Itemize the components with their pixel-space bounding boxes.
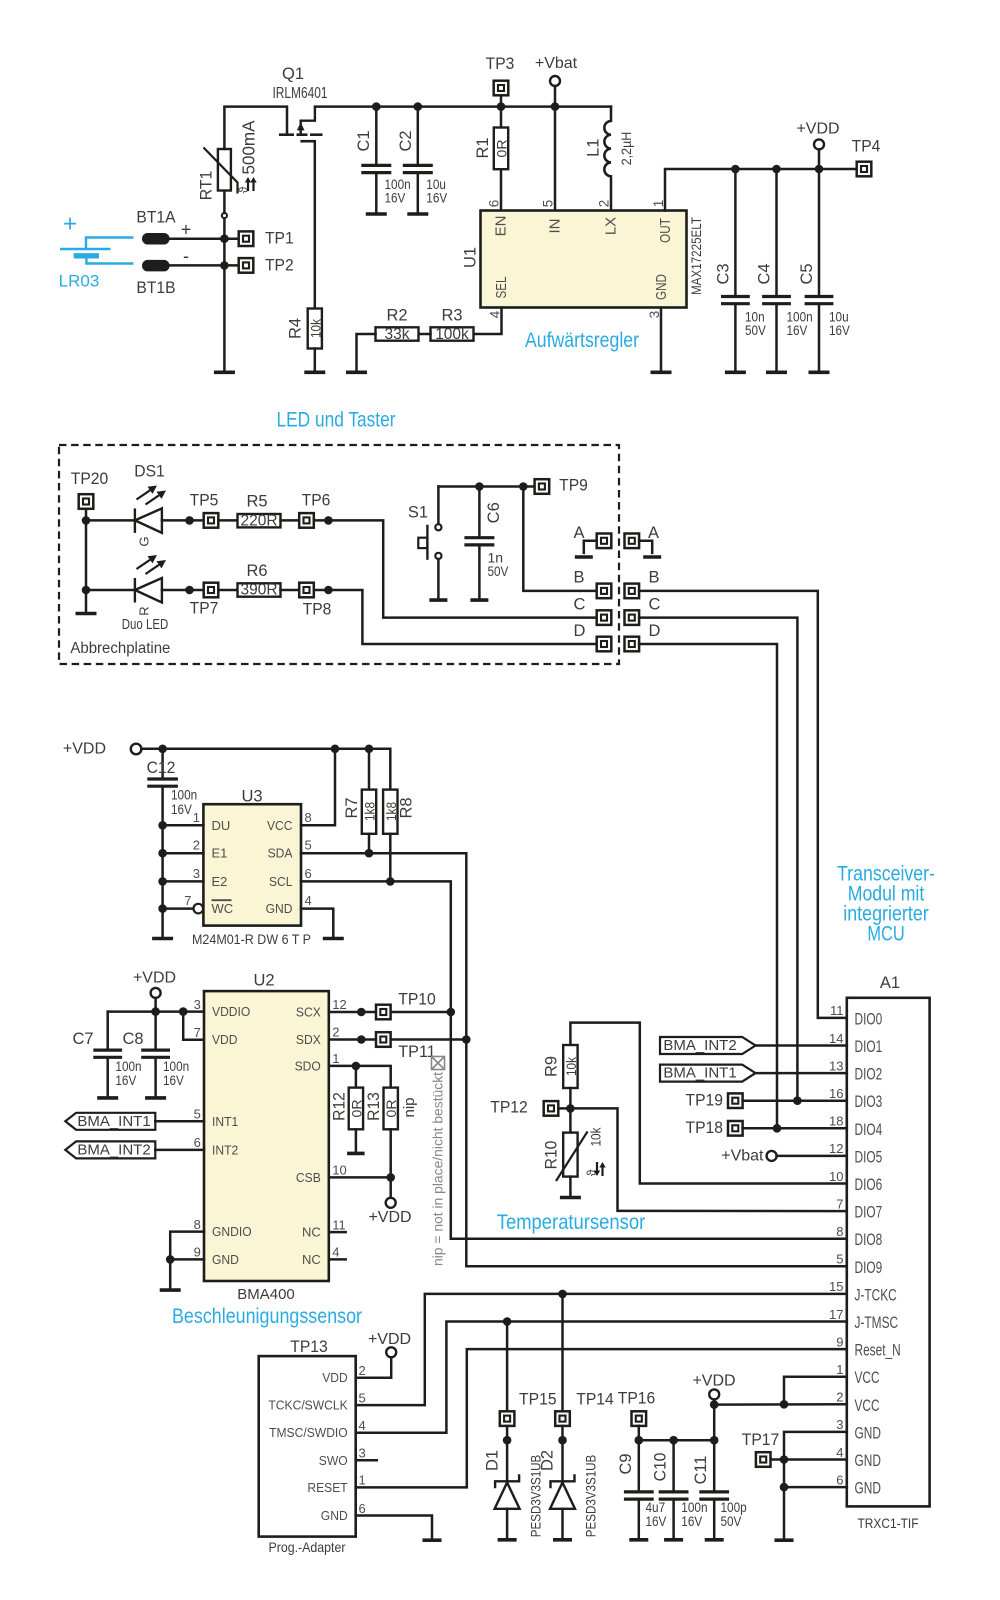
resistor R13 nip bbox=[384, 1088, 398, 1130]
junction dot TP17 row bbox=[780, 1455, 789, 1464]
wire U1 OUT pin 1 to +VDD rail and TP4 bbox=[665, 169, 857, 211]
op-amp U3 M24M01 EEPROM box bbox=[203, 804, 301, 925]
junction dot C5/+VDD bbox=[815, 165, 824, 174]
testpoint TP11 bbox=[376, 1032, 391, 1047]
svg-text:2: 2 bbox=[359, 1363, 366, 1378]
wire TP13 GND pin 6 to ground bbox=[356, 1516, 432, 1539]
svg-text:2: 2 bbox=[332, 1025, 339, 1040]
svg-text:U2: U2 bbox=[253, 972, 274, 990]
svg-text:RT1: RT1 bbox=[198, 171, 216, 201]
svg-text:E2: E2 bbox=[212, 874, 228, 889]
testpoint TP9 bbox=[535, 479, 550, 494]
wire GND pin 9 bbox=[170, 1258, 204, 1261]
junction dot C2 bbox=[414, 102, 423, 111]
svg-text:C8: C8 bbox=[122, 1030, 143, 1048]
svg-text:D2: D2 bbox=[539, 1450, 557, 1471]
resistor R8 pullup bbox=[383, 790, 397, 834]
svg-text:J-TMSC: J-TMSC bbox=[855, 1314, 899, 1332]
wire green LED to TP5 bbox=[162, 519, 204, 522]
junction dot R8 SCL bbox=[386, 877, 395, 886]
svg-text:50V: 50V bbox=[721, 1513, 742, 1529]
diode D2 PESD3V3S1UB bbox=[550, 1474, 575, 1509]
svg-text:SCX: SCX bbox=[296, 1005, 321, 1020]
svg-text:C: C bbox=[649, 596, 661, 614]
thermistor R10 NTC bbox=[563, 1133, 577, 1177]
junction dot D2 bbox=[558, 1436, 567, 1445]
wire BMA_INT2 to DIO1 bbox=[756, 1044, 847, 1047]
svg-text:33k: 33k bbox=[385, 326, 410, 343]
svg-text:D1: D1 bbox=[484, 1450, 502, 1471]
svg-text:16V: 16V bbox=[163, 1072, 184, 1088]
svg-text:+VDD: +VDD bbox=[133, 970, 176, 987]
junction dot R7 SDA bbox=[365, 849, 374, 858]
svg-text:18: 18 bbox=[829, 1114, 843, 1129]
junction dot C1 bbox=[372, 102, 381, 111]
dashed box Abbrechplatine bbox=[59, 445, 619, 664]
ground C1 bbox=[366, 212, 387, 216]
ground S1 bbox=[429, 598, 447, 602]
junction dot DU row bbox=[158, 821, 167, 830]
wire VCC rail to pin 2 bbox=[714, 1403, 847, 1406]
transistor Q1 IRLM6401 bbox=[279, 107, 323, 142]
svg-text:3: 3 bbox=[194, 997, 201, 1012]
svg-text:A: A bbox=[573, 524, 584, 542]
svg-text:50V: 50V bbox=[745, 322, 766, 338]
svg-text:DIO2: DIO2 bbox=[855, 1066, 883, 1084]
junction dot WC row bbox=[158, 904, 167, 913]
svg-text:SWO: SWO bbox=[319, 1453, 348, 1468]
wire +Vbat to DIO5 bbox=[777, 1155, 847, 1158]
node flag BMA_INT2 left bbox=[65, 1141, 155, 1158]
svg-text:11: 11 bbox=[332, 1217, 346, 1232]
testpoint TP15 bbox=[500, 1411, 515, 1426]
junction dot D2 on J-TCKC bbox=[558, 1290, 567, 1299]
testpoint TP10 bbox=[376, 1005, 391, 1020]
svg-text:LX: LX bbox=[603, 217, 620, 235]
wire RESET to Reset_N row bbox=[356, 1349, 847, 1487]
connector C right bbox=[625, 610, 640, 625]
svg-text:17: 17 bbox=[829, 1307, 843, 1322]
wire +VDD rail over U3 bbox=[141, 749, 390, 790]
testpoint TP20 bbox=[79, 494, 94, 509]
wire TP17 to GND pin 4 bbox=[771, 1458, 847, 1461]
testpoint TP14 bbox=[555, 1411, 570, 1426]
junction dot D net DIO4 bbox=[773, 1124, 782, 1133]
svg-text:100k: 100k bbox=[435, 326, 469, 343]
wire S1 to ground bbox=[437, 559, 440, 598]
testpoint TP4 bbox=[857, 162, 872, 177]
junction dot SCX bbox=[357, 1008, 366, 1017]
svg-text:WC: WC bbox=[212, 901, 234, 916]
svg-text:16V: 16V bbox=[385, 190, 406, 206]
svg-text:VDD: VDD bbox=[212, 1032, 238, 1047]
wire TP12 stub bbox=[558, 1107, 570, 1110]
junction dot VCC branch bbox=[780, 1400, 789, 1409]
capacitor C9 bbox=[624, 1492, 654, 1499]
svg-text:16V: 16V bbox=[681, 1513, 702, 1529]
wire BMA_INT1 to INT1 pin 5 bbox=[155, 1120, 204, 1123]
svg-text:J-TCKC: J-TCKC bbox=[855, 1286, 897, 1304]
junction dot +Vbat/IN bbox=[551, 102, 560, 111]
svg-text:5: 5 bbox=[359, 1390, 366, 1405]
svg-text:DU: DU bbox=[212, 818, 231, 833]
svg-text:13: 13 bbox=[829, 1058, 843, 1073]
svg-text:LED und Taster: LED und Taster bbox=[277, 409, 396, 432]
testpoint TP17 bbox=[756, 1452, 771, 1467]
junction dot after TP6 bbox=[324, 516, 333, 525]
svg-text:2: 2 bbox=[193, 838, 200, 853]
ground R2 bbox=[346, 370, 367, 374]
svg-text:Reset_N: Reset_N bbox=[855, 1342, 901, 1360]
wire BMA_INT2 to INT2 pin 6 bbox=[155, 1149, 204, 1152]
svg-text:R8: R8 bbox=[398, 797, 416, 818]
svg-text:220R: 220R bbox=[240, 512, 277, 529]
svg-text:+VDD: +VDD bbox=[692, 1373, 735, 1390]
wire E1 pin 2 bbox=[163, 852, 204, 855]
testpoint TP3 bbox=[494, 81, 509, 96]
svg-text:3: 3 bbox=[836, 1417, 843, 1432]
svg-text:TP6: TP6 bbox=[302, 492, 331, 510]
wire U3 VCC pin 8 up to rail bbox=[301, 749, 335, 826]
wire U1 SEL pin 4 to R3 bbox=[474, 308, 502, 335]
ground TP20 column bbox=[76, 612, 97, 616]
junction dot VDD branch bbox=[179, 1007, 188, 1016]
svg-text:GND: GND bbox=[212, 1252, 239, 1267]
svg-text:+: + bbox=[181, 220, 192, 240]
junction dot GND pin 6 row bbox=[780, 1483, 789, 1492]
svg-text:DIO3: DIO3 bbox=[855, 1093, 883, 1111]
svg-text:R5: R5 bbox=[246, 493, 267, 511]
svg-text:3: 3 bbox=[359, 1446, 366, 1461]
svg-text:4: 4 bbox=[305, 893, 312, 908]
wire BT1B to TP2 bbox=[170, 264, 239, 267]
svg-text:SDA: SDA bbox=[268, 846, 293, 861]
svg-text:D: D bbox=[649, 622, 661, 640]
svg-text:6: 6 bbox=[359, 1501, 366, 1516]
node flag BMA_INT2 right bbox=[660, 1037, 756, 1054]
svg-text:Abbrechplatine: Abbrechplatine bbox=[70, 640, 170, 657]
ground A right bbox=[643, 555, 661, 559]
svg-text:14: 14 bbox=[829, 1031, 843, 1046]
svg-text:DIO7: DIO7 bbox=[855, 1204, 883, 1222]
inductor L1 2.2uH bbox=[610, 107, 613, 121]
LED DS1 red half bbox=[135, 578, 162, 603]
wire SCL net U3 to SCX/DIO8 bbox=[301, 881, 847, 1238]
junction dot SDA/SDX bbox=[462, 1035, 471, 1044]
capacitor C10 bbox=[672, 1440, 675, 1492]
wire R1 to U1 EN pin 6 bbox=[500, 169, 503, 210]
svg-text:4: 4 bbox=[836, 1445, 843, 1460]
svg-text:5: 5 bbox=[836, 1252, 843, 1267]
wire SDX row to TP11 bbox=[329, 1038, 467, 1041]
wire D2 net from J-TCKC bbox=[561, 1294, 564, 1411]
connector A left bbox=[597, 534, 612, 549]
svg-text:1: 1 bbox=[359, 1473, 366, 1488]
junction dot GND row bbox=[166, 1255, 175, 1264]
svg-text:nip = not in place/nicht bestü: nip = not in place/nicht bestückt bbox=[431, 1072, 446, 1266]
svg-text:U1: U1 bbox=[462, 247, 480, 268]
svg-text:10k: 10k bbox=[588, 1127, 604, 1147]
svg-text:C1: C1 bbox=[355, 130, 373, 151]
junction dot SCL/SCX bbox=[447, 1008, 456, 1017]
ground U1 bbox=[651, 370, 672, 374]
wire D right to A1 DIO4 net bbox=[639, 644, 777, 1128]
ground C7 bbox=[97, 1096, 118, 1100]
svg-text:L1: L1 bbox=[585, 139, 603, 157]
junction dot SDO/R12 bbox=[352, 1062, 361, 1071]
wire SWO stub bbox=[356, 1459, 377, 1462]
svg-text:8: 8 bbox=[836, 1224, 843, 1239]
connector D left bbox=[597, 637, 612, 652]
capacitor C11 bbox=[713, 1440, 716, 1492]
svg-text:TP12: TP12 bbox=[490, 1099, 528, 1117]
svg-text:-: - bbox=[183, 246, 189, 266]
svg-text:TP7: TP7 bbox=[190, 600, 219, 618]
ground C3 bbox=[725, 370, 746, 374]
wire battery minus to ground bbox=[223, 239, 226, 371]
op-amp A1 TRXC1-TIF module box bbox=[847, 998, 930, 1507]
connector C left bbox=[597, 610, 612, 625]
wire +VDD to VDDIO pin 3 bbox=[108, 1010, 204, 1013]
svg-text:SDX: SDX bbox=[296, 1032, 321, 1047]
junction dot +VDD U2 bbox=[151, 1007, 160, 1016]
junction dot green row bbox=[82, 516, 91, 525]
wire BMA_INT1 to DIO2 bbox=[756, 1072, 847, 1075]
svg-text:R2: R2 bbox=[386, 307, 407, 325]
wire C rail bbox=[639, 1439, 714, 1442]
junction dot CSB bbox=[386, 1173, 395, 1182]
ground C4 bbox=[766, 370, 787, 374]
svg-text:R12: R12 bbox=[331, 1092, 349, 1121]
svg-text:IRLM6401: IRLM6401 bbox=[273, 85, 328, 102]
svg-text:BMA400: BMA400 bbox=[237, 1286, 295, 1303]
ground C12 column bbox=[152, 937, 173, 941]
LED DS1 green half bbox=[135, 508, 162, 533]
svg-text:9: 9 bbox=[194, 1245, 201, 1260]
wire SDA net U3 to SDX/DIO9 bbox=[301, 853, 847, 1266]
testpoint TP18 bbox=[728, 1121, 743, 1136]
svg-text:3: 3 bbox=[193, 866, 200, 881]
connector D right bbox=[625, 637, 640, 652]
capacitor C3 bbox=[734, 169, 737, 297]
svg-text:390R: 390R bbox=[240, 582, 277, 599]
svg-text:6: 6 bbox=[487, 200, 502, 208]
ground R12 bbox=[347, 1152, 365, 1156]
testpoint TP1 bbox=[239, 231, 254, 246]
wire U2 NC pin 11 stub bbox=[329, 1231, 346, 1234]
connector B left bbox=[597, 584, 612, 599]
svg-text:TP13: TP13 bbox=[290, 1338, 328, 1356]
svg-text:10k: 10k bbox=[563, 1056, 579, 1076]
svg-text:11: 11 bbox=[830, 1003, 844, 1018]
wire GND pin 3 net bbox=[784, 1432, 847, 1538]
svg-text:MCU: MCU bbox=[867, 923, 904, 946]
svg-text:TP1: TP1 bbox=[265, 230, 294, 248]
wire TP15 to D1 bbox=[506, 1426, 509, 1481]
testpoint TP7 bbox=[204, 583, 219, 598]
testpoint TP2 bbox=[239, 258, 254, 273]
wire U3 GND pin 4 to ground bbox=[301, 909, 333, 937]
battery terminal BT1A bbox=[142, 233, 170, 245]
svg-text:6: 6 bbox=[836, 1472, 843, 1487]
wire TP19 to DIO3 bbox=[743, 1099, 847, 1102]
svg-text:TP19: TP19 bbox=[686, 1091, 724, 1109]
svg-text:TP14: TP14 bbox=[576, 1391, 614, 1409]
ground C6 bbox=[470, 598, 488, 602]
wire R6 to TP8 bbox=[281, 589, 300, 592]
svg-text:2: 2 bbox=[836, 1390, 843, 1405]
svg-text:TP3: TP3 bbox=[486, 55, 515, 73]
svg-text:TP10: TP10 bbox=[398, 991, 436, 1009]
node flag BMA_INT1 right bbox=[660, 1065, 756, 1082]
wire TCKC to J-TCKC row bbox=[356, 1294, 847, 1405]
wire WC pin 7 with inverter circle bbox=[163, 907, 194, 910]
svg-text:BT1A: BT1A bbox=[136, 209, 175, 227]
wire D2 to ground bbox=[561, 1509, 564, 1538]
svg-text:INT2: INT2 bbox=[212, 1142, 238, 1157]
wire R13 to CSB and +VDD bbox=[389, 1129, 392, 1198]
svg-text:GND: GND bbox=[855, 1480, 881, 1498]
power flag +VDD below R13 bbox=[386, 1198, 396, 1208]
svg-text:E1: E1 bbox=[212, 846, 228, 861]
svg-text:TP16: TP16 bbox=[618, 1390, 656, 1408]
svg-text:A1: A1 bbox=[880, 974, 900, 992]
capacitor C7 bbox=[106, 1012, 109, 1051]
svg-text:2,2µH: 2,2µH bbox=[618, 132, 634, 166]
resistor R3 bbox=[431, 327, 474, 340]
svg-text:MAX17225ELT: MAX17225ELT bbox=[688, 217, 704, 295]
ground C11 bbox=[705, 1538, 724, 1542]
wire R9 to R10 bbox=[569, 1088, 572, 1133]
junction dot after TP8 bbox=[324, 586, 333, 595]
svg-text:VDD: VDD bbox=[322, 1370, 348, 1385]
svg-text:R4: R4 bbox=[287, 318, 305, 339]
svg-text:1k8: 1k8 bbox=[383, 802, 399, 821]
wire R9 top to DIO6 bbox=[570, 1023, 846, 1184]
resistor R6 bbox=[238, 583, 281, 596]
connector TP13 Prog-Adapter box bbox=[259, 1356, 356, 1537]
wire GND pin 6 row bbox=[784, 1486, 847, 1489]
svg-text:C5: C5 bbox=[798, 263, 816, 284]
node flag BMA_INT1 left bbox=[65, 1113, 155, 1130]
svg-text:15: 15 bbox=[829, 1279, 843, 1294]
svg-text:C10: C10 bbox=[652, 1453, 670, 1482]
svg-text:DIO5: DIO5 bbox=[855, 1148, 883, 1166]
svg-text:OUT: OUT bbox=[657, 218, 674, 243]
wire D1 to ground bbox=[506, 1509, 509, 1538]
svg-text:VCC: VCC bbox=[855, 1369, 880, 1387]
svg-text:GND: GND bbox=[855, 1452, 881, 1470]
svg-text:GND: GND bbox=[266, 901, 293, 916]
wire E2 pin 3 bbox=[163, 880, 204, 883]
capacitor C6 bbox=[478, 487, 481, 538]
svg-text:Q1: Q1 bbox=[282, 65, 304, 83]
junction dot battery minus bbox=[220, 261, 229, 270]
svg-text:6: 6 bbox=[305, 866, 312, 881]
svg-text:1: 1 bbox=[836, 1362, 843, 1377]
junction dot E2 row bbox=[158, 877, 167, 886]
svg-text:10k: 10k bbox=[307, 318, 323, 338]
wire TP13 VDD pin 2 bbox=[356, 1357, 392, 1377]
ground C10 bbox=[664, 1538, 683, 1542]
thermal fuse RT1 bbox=[218, 149, 231, 191]
wire battery plus up to RT1 with pin circle bbox=[223, 218, 226, 239]
junction dot C4 bbox=[772, 165, 781, 174]
junction dot TP7 row bbox=[185, 586, 194, 595]
svg-text:BMA_INT1: BMA_INT1 bbox=[77, 1113, 150, 1130]
wire TP6 to connector C bbox=[314, 520, 597, 617]
svg-text:R9: R9 bbox=[543, 1056, 561, 1077]
svg-text:B: B bbox=[648, 569, 659, 587]
svg-text:+VDD: +VDD bbox=[63, 740, 106, 757]
wire BT1A to TP1 bbox=[170, 237, 239, 240]
connector B right bbox=[625, 584, 640, 599]
svg-text:1: 1 bbox=[332, 1051, 339, 1066]
ground C5 bbox=[809, 370, 830, 374]
svg-text:INT1: INT1 bbox=[212, 1114, 238, 1129]
svg-text:Duo LED: Duo LED bbox=[122, 616, 169, 633]
capacitor C8 bbox=[154, 1012, 157, 1051]
testpoint TP5 bbox=[204, 513, 219, 528]
svg-text:A: A bbox=[648, 524, 659, 542]
svg-text:7: 7 bbox=[194, 1025, 201, 1040]
svg-text:C6: C6 bbox=[485, 502, 503, 523]
resistor R4 bbox=[308, 309, 322, 349]
svg-text:SDO: SDO bbox=[295, 1058, 321, 1073]
svg-text:DIO8: DIO8 bbox=[855, 1231, 883, 1249]
wire U1 GND pin 3 to ground bbox=[660, 308, 663, 371]
junction dot TP3/R1 bbox=[497, 102, 506, 111]
svg-text:G: G bbox=[137, 536, 152, 546]
svg-text:BMA_INT2: BMA_INT2 bbox=[663, 1037, 736, 1054]
svg-text:C12: C12 bbox=[147, 759, 176, 777]
ground R4 bbox=[304, 370, 325, 374]
svg-text:R1: R1 bbox=[474, 137, 492, 158]
resistor R5 bbox=[238, 514, 281, 527]
testpoint TP12 bbox=[544, 1101, 559, 1116]
svg-text:TP4: TP4 bbox=[852, 138, 881, 156]
svg-text:BT1B: BT1B bbox=[136, 279, 175, 297]
svg-text:R13: R13 bbox=[365, 1092, 383, 1121]
wire +Vbat to U1 IN pin 5 bbox=[554, 86, 557, 211]
wire R5 to TP6 bbox=[281, 519, 300, 522]
svg-text:R: R bbox=[137, 606, 152, 615]
svg-text:8: 8 bbox=[305, 810, 312, 825]
wire GNDIO pin 8 to ground bbox=[170, 1232, 204, 1288]
svg-text:16V: 16V bbox=[787, 322, 808, 338]
ground battery bbox=[214, 370, 235, 374]
svg-text:0R: 0R bbox=[494, 140, 510, 158]
svg-text:+Vbat: +Vbat bbox=[721, 1147, 764, 1164]
svg-text:nip: nip bbox=[401, 1097, 418, 1117]
svg-text:SCL: SCL bbox=[269, 874, 293, 889]
ground D1 bbox=[498, 1538, 517, 1542]
svg-text:C4: C4 bbox=[756, 263, 774, 284]
svg-text:TP2: TP2 bbox=[265, 256, 294, 274]
wire VCC branch to pin 1 bbox=[784, 1377, 847, 1405]
junction dot D1 on J-TMSC bbox=[503, 1317, 512, 1326]
svg-text:TP15: TP15 bbox=[519, 1391, 557, 1409]
capacitor C2 bbox=[417, 107, 420, 166]
ground U3 bbox=[323, 937, 344, 941]
svg-text:DIO6: DIO6 bbox=[855, 1176, 883, 1194]
wire RT1 top to Q1 gate bbox=[224, 107, 287, 149]
svg-text:R6: R6 bbox=[246, 562, 267, 580]
wire D1 net from J-TMSC bbox=[506, 1322, 509, 1412]
svg-text:5: 5 bbox=[541, 200, 556, 208]
svg-text:R7: R7 bbox=[343, 797, 361, 818]
op-amp U1 MAX17225ELT boost regulator box bbox=[481, 211, 687, 308]
